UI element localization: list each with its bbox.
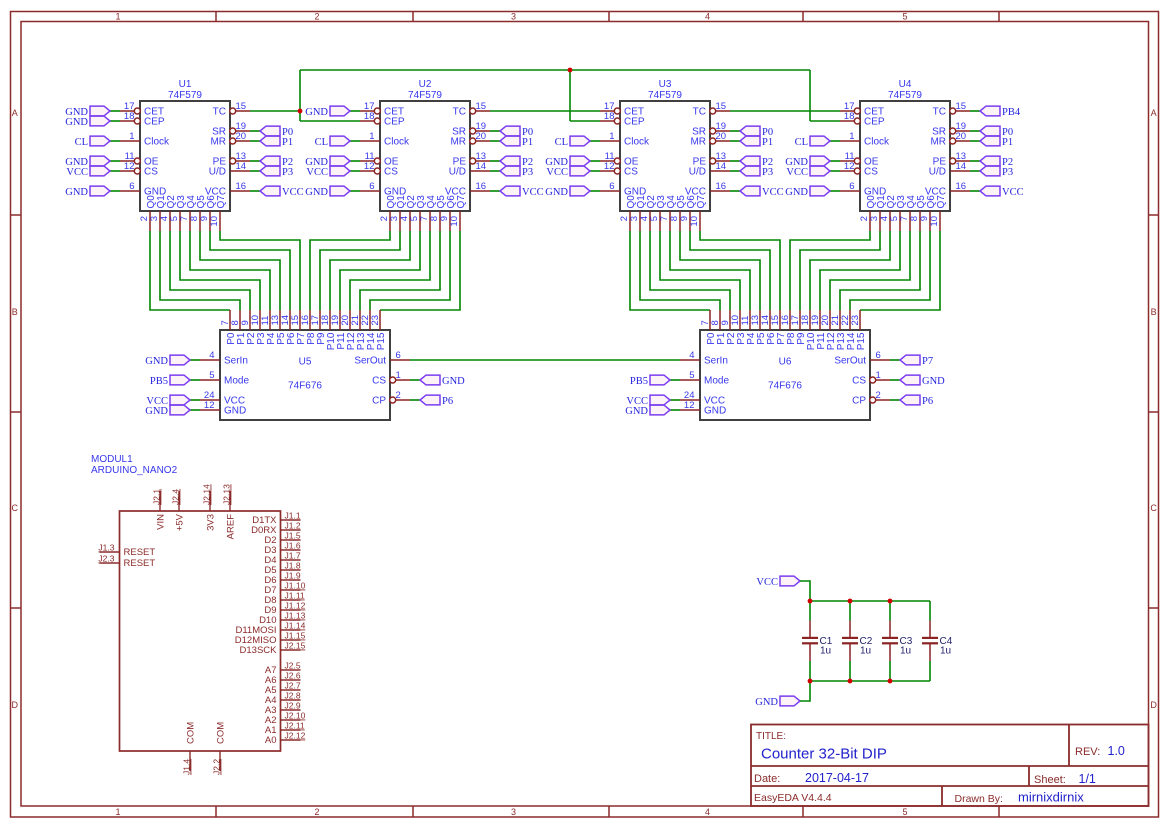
svg-text:74F676: 74F676 bbox=[288, 381, 322, 392]
svg-text:Clock: Clock bbox=[384, 137, 410, 148]
svg-text:18: 18 bbox=[124, 111, 135, 122]
svg-text:J1.3: J1.3 bbox=[98, 543, 114, 553]
svg-text:J2.13: J2.13 bbox=[222, 484, 232, 505]
svg-text:15: 15 bbox=[956, 101, 967, 112]
svg-text:VCC: VCC bbox=[306, 167, 328, 178]
svg-text:P1: P1 bbox=[282, 137, 293, 148]
svg-text:P3: P3 bbox=[762, 167, 773, 178]
svg-text:1: 1 bbox=[876, 370, 881, 381]
svg-text:CEP: CEP bbox=[144, 117, 165, 128]
svg-text:J2.10: J2.10 bbox=[285, 711, 306, 721]
svg-text:SerIn: SerIn bbox=[224, 356, 248, 367]
svg-text:1: 1 bbox=[849, 131, 854, 142]
svg-text:5: 5 bbox=[902, 12, 907, 22]
svg-text:J1.13: J1.13 bbox=[285, 611, 306, 621]
svg-text:Sheet:: Sheet: bbox=[1034, 774, 1066, 786]
svg-text:SerIn: SerIn bbox=[704, 356, 728, 367]
svg-text:B: B bbox=[12, 307, 18, 317]
svg-text:CL: CL bbox=[315, 137, 328, 148]
svg-text:4: 4 bbox=[209, 350, 214, 361]
svg-text:GND: GND bbox=[224, 406, 246, 417]
svg-text:J1.5: J1.5 bbox=[285, 531, 301, 541]
svg-text:15: 15 bbox=[236, 101, 247, 112]
svg-text:20: 20 bbox=[956, 131, 967, 142]
svg-text:18: 18 bbox=[844, 111, 855, 122]
svg-text:10: 10 bbox=[929, 216, 940, 227]
svg-text:PB5: PB5 bbox=[150, 376, 168, 387]
svg-text:14: 14 bbox=[716, 161, 727, 172]
svg-text:Q7: Q7 bbox=[936, 195, 947, 209]
svg-text:J1.6: J1.6 bbox=[285, 541, 301, 551]
svg-text:P1: P1 bbox=[762, 137, 773, 148]
svg-text:5: 5 bbox=[209, 370, 214, 381]
svg-text:GND: GND bbox=[785, 187, 808, 198]
svg-text:J2.15: J2.15 bbox=[285, 641, 306, 651]
svg-text:U/D: U/D bbox=[929, 167, 946, 178]
svg-text:23: 23 bbox=[370, 315, 381, 326]
svg-text:P15: P15 bbox=[856, 332, 867, 350]
svg-text:12: 12 bbox=[844, 161, 855, 172]
svg-text:6: 6 bbox=[609, 181, 614, 192]
svg-text:5: 5 bbox=[689, 370, 694, 381]
svg-text:Clock: Clock bbox=[624, 137, 650, 148]
svg-text:PB4: PB4 bbox=[1002, 107, 1021, 118]
svg-text:1: 1 bbox=[129, 131, 134, 142]
svg-text:Drawn By:: Drawn By: bbox=[955, 793, 1003, 805]
svg-text:3: 3 bbox=[511, 807, 516, 817]
svg-text:C: C bbox=[1150, 503, 1157, 513]
svg-text:VCC: VCC bbox=[282, 187, 304, 198]
svg-text:20: 20 bbox=[236, 131, 247, 142]
svg-text:P6: P6 bbox=[922, 396, 933, 407]
svg-text:J2.12: J2.12 bbox=[285, 731, 306, 741]
svg-text:GND: GND bbox=[305, 187, 328, 198]
svg-text:12: 12 bbox=[204, 400, 215, 411]
svg-text:GND: GND bbox=[755, 697, 778, 708]
svg-text:P1: P1 bbox=[1002, 137, 1013, 148]
svg-text:U6: U6 bbox=[779, 357, 792, 368]
svg-text:U/D: U/D bbox=[689, 167, 706, 178]
svg-text:10: 10 bbox=[689, 216, 700, 227]
svg-text:18: 18 bbox=[604, 111, 615, 122]
svg-text:CS: CS bbox=[384, 167, 398, 178]
svg-text:1u: 1u bbox=[820, 646, 831, 657]
svg-text:GND: GND bbox=[65, 117, 88, 128]
svg-text:J2.11: J2.11 bbox=[285, 721, 305, 731]
svg-text:TC: TC bbox=[933, 107, 946, 118]
svg-text:SerOut: SerOut bbox=[354, 356, 386, 367]
svg-text:A: A bbox=[1151, 108, 1157, 118]
svg-text:6: 6 bbox=[849, 181, 854, 192]
svg-text:1: 1 bbox=[115, 12, 120, 22]
svg-text:REV:: REV: bbox=[1075, 746, 1100, 758]
svg-text:Clock: Clock bbox=[864, 137, 890, 148]
svg-text:3: 3 bbox=[511, 12, 516, 22]
svg-text:P3: P3 bbox=[1002, 167, 1013, 178]
svg-text:J1.9: J1.9 bbox=[285, 571, 301, 581]
svg-text:ARDUINO_NANO2: ARDUINO_NANO2 bbox=[91, 465, 178, 476]
svg-text:Q7: Q7 bbox=[216, 195, 227, 209]
svg-text:20: 20 bbox=[476, 131, 487, 142]
svg-text:6: 6 bbox=[876, 350, 881, 361]
svg-text:CP: CP bbox=[852, 396, 866, 407]
svg-text:20: 20 bbox=[716, 131, 727, 142]
svg-text:B: B bbox=[1151, 307, 1157, 317]
svg-text:RESET: RESET bbox=[124, 558, 156, 569]
svg-text:P1: P1 bbox=[522, 137, 533, 148]
svg-text:U3: U3 bbox=[659, 79, 672, 90]
svg-text:1: 1 bbox=[115, 807, 120, 817]
svg-text:1: 1 bbox=[396, 370, 401, 381]
svg-text:J2.2: J2.2 bbox=[212, 759, 222, 775]
svg-text:COM: COM bbox=[186, 722, 197, 744]
svg-text:Counter 32-Bit DIP: Counter 32-Bit DIP bbox=[761, 746, 887, 763]
svg-text:12: 12 bbox=[684, 400, 695, 411]
svg-text:1u: 1u bbox=[900, 646, 911, 657]
svg-text:18: 18 bbox=[364, 111, 375, 122]
svg-text:J1.11: J1.11 bbox=[285, 591, 305, 601]
svg-text:A0: A0 bbox=[265, 735, 277, 746]
svg-text:Clock: Clock bbox=[144, 137, 170, 148]
svg-text:P3: P3 bbox=[522, 167, 533, 178]
svg-text:J1.12: J1.12 bbox=[285, 601, 306, 611]
svg-text:74F579: 74F579 bbox=[408, 90, 442, 101]
svg-text:10: 10 bbox=[209, 216, 220, 227]
svg-text:mirnixdirnix: mirnixdirnix bbox=[1018, 790, 1084, 805]
svg-text:U/D: U/D bbox=[209, 167, 226, 178]
svg-text:VCC: VCC bbox=[1002, 187, 1024, 198]
svg-text:CL: CL bbox=[555, 137, 568, 148]
svg-text:16: 16 bbox=[476, 181, 487, 192]
svg-text:TC: TC bbox=[453, 107, 466, 118]
svg-text:GND: GND bbox=[145, 356, 168, 367]
svg-text:COM: COM bbox=[216, 722, 227, 744]
svg-text:14: 14 bbox=[956, 161, 967, 172]
svg-text:2: 2 bbox=[396, 390, 401, 401]
svg-text:1.0: 1.0 bbox=[1108, 744, 1125, 758]
svg-text:23: 23 bbox=[850, 315, 861, 326]
svg-text:2017-04-17: 2017-04-17 bbox=[805, 771, 869, 785]
svg-text:PB5: PB5 bbox=[630, 376, 648, 387]
svg-text:MR: MR bbox=[450, 137, 466, 148]
svg-text:J1.2: J1.2 bbox=[285, 521, 301, 531]
svg-text:6: 6 bbox=[129, 181, 134, 192]
svg-text:U2: U2 bbox=[419, 79, 432, 90]
svg-text:D: D bbox=[11, 700, 18, 710]
svg-text:Q7: Q7 bbox=[456, 195, 467, 209]
svg-text:CS: CS bbox=[852, 376, 866, 387]
svg-text:74F579: 74F579 bbox=[648, 90, 682, 101]
svg-text:12: 12 bbox=[124, 161, 135, 172]
svg-text:J2.7: J2.7 bbox=[285, 681, 301, 691]
svg-text:CEP: CEP bbox=[864, 117, 885, 128]
svg-text:J1.1: J1.1 bbox=[285, 511, 301, 521]
svg-text:MODUL1: MODUL1 bbox=[91, 454, 133, 465]
svg-text:CS: CS bbox=[864, 167, 878, 178]
svg-text:J1.15: J1.15 bbox=[285, 631, 306, 641]
svg-text:12: 12 bbox=[364, 161, 375, 172]
svg-text:J2.5: J2.5 bbox=[285, 661, 301, 671]
svg-text:15: 15 bbox=[716, 101, 727, 112]
svg-text:Mode: Mode bbox=[224, 376, 249, 387]
svg-text:C: C bbox=[11, 503, 18, 513]
svg-text:TITLE:: TITLE: bbox=[756, 731, 786, 742]
svg-text:16: 16 bbox=[716, 181, 727, 192]
svg-text:U4: U4 bbox=[899, 79, 912, 90]
svg-text:VCC: VCC bbox=[546, 167, 568, 178]
svg-text:4: 4 bbox=[689, 350, 694, 361]
svg-text:J1.14: J1.14 bbox=[285, 621, 306, 631]
svg-text:CEP: CEP bbox=[624, 117, 645, 128]
svg-text:P6: P6 bbox=[442, 396, 453, 407]
svg-text:P7: P7 bbox=[922, 356, 933, 367]
svg-text:EasyEDA V4.4.4: EasyEDA V4.4.4 bbox=[754, 792, 832, 804]
svg-text:GND: GND bbox=[704, 406, 726, 417]
svg-text:2: 2 bbox=[314, 807, 319, 817]
svg-text:J1.4: J1.4 bbox=[182, 759, 192, 775]
svg-text:CEP: CEP bbox=[384, 117, 405, 128]
svg-text:VCC: VCC bbox=[762, 187, 784, 198]
svg-text:16: 16 bbox=[956, 181, 967, 192]
svg-text:1/1: 1/1 bbox=[1079, 772, 1096, 786]
svg-text:CL: CL bbox=[795, 137, 808, 148]
svg-text:TC: TC bbox=[693, 107, 706, 118]
svg-text:U/D: U/D bbox=[449, 167, 466, 178]
svg-text:CS: CS bbox=[624, 167, 638, 178]
svg-text:P3: P3 bbox=[282, 167, 293, 178]
svg-text:GND: GND bbox=[305, 107, 328, 118]
svg-text:J2.1: J2.1 bbox=[152, 489, 162, 505]
svg-text:CP: CP bbox=[372, 396, 386, 407]
svg-text:CS: CS bbox=[144, 167, 158, 178]
svg-text:TC: TC bbox=[213, 107, 226, 118]
svg-text:MR: MR bbox=[690, 137, 706, 148]
svg-text:6: 6 bbox=[369, 181, 374, 192]
svg-text:GND: GND bbox=[545, 187, 568, 198]
svg-text:VCC: VCC bbox=[522, 187, 544, 198]
svg-text:Q7: Q7 bbox=[696, 195, 707, 209]
svg-text:15: 15 bbox=[476, 101, 487, 112]
svg-text:GND: GND bbox=[922, 376, 945, 387]
svg-text:Mode: Mode bbox=[704, 376, 729, 387]
svg-text:J2.8: J2.8 bbox=[285, 691, 301, 701]
svg-text:Date:: Date: bbox=[754, 773, 780, 785]
svg-text:U1: U1 bbox=[179, 79, 192, 90]
svg-text:1: 1 bbox=[369, 131, 374, 142]
svg-text:3V3: 3V3 bbox=[206, 514, 217, 531]
svg-text:2: 2 bbox=[876, 390, 881, 401]
svg-text:CL: CL bbox=[75, 137, 88, 148]
svg-text:VCC: VCC bbox=[66, 167, 88, 178]
svg-text:SerOut: SerOut bbox=[834, 356, 866, 367]
svg-text:4: 4 bbox=[705, 807, 710, 817]
svg-text:MR: MR bbox=[210, 137, 226, 148]
svg-text:VCC: VCC bbox=[786, 167, 808, 178]
svg-text:AREF: AREF bbox=[226, 514, 237, 540]
svg-text:2: 2 bbox=[314, 12, 319, 22]
svg-text:A: A bbox=[12, 108, 18, 118]
svg-text:6: 6 bbox=[396, 350, 401, 361]
svg-text:4: 4 bbox=[705, 12, 710, 22]
svg-text:14: 14 bbox=[236, 161, 247, 172]
svg-text:74F676: 74F676 bbox=[768, 381, 802, 392]
svg-text:J1.8: J1.8 bbox=[285, 561, 301, 571]
svg-text:J2.6: J2.6 bbox=[285, 671, 301, 681]
svg-text:D: D bbox=[1150, 700, 1157, 710]
svg-text:14: 14 bbox=[476, 161, 487, 172]
svg-text:1u: 1u bbox=[940, 646, 951, 657]
svg-text:74F579: 74F579 bbox=[168, 90, 202, 101]
svg-text:D13SCK: D13SCK bbox=[240, 645, 278, 656]
svg-text:MR: MR bbox=[930, 137, 946, 148]
svg-text:GND: GND bbox=[145, 406, 168, 417]
svg-text:U5: U5 bbox=[299, 357, 312, 368]
svg-text:VIN: VIN bbox=[156, 514, 167, 530]
svg-text:P15: P15 bbox=[376, 332, 387, 350]
svg-text:GND: GND bbox=[625, 406, 648, 417]
svg-text:VCC: VCC bbox=[756, 577, 778, 588]
svg-text:J1.7: J1.7 bbox=[285, 551, 301, 561]
svg-text:16: 16 bbox=[236, 181, 247, 192]
svg-text:10: 10 bbox=[449, 216, 460, 227]
svg-text:GND: GND bbox=[442, 376, 465, 387]
svg-text:5: 5 bbox=[902, 807, 907, 817]
svg-text:12: 12 bbox=[604, 161, 615, 172]
svg-text:GND: GND bbox=[65, 187, 88, 198]
svg-text:RESET: RESET bbox=[124, 547, 156, 558]
svg-text:J2.14: J2.14 bbox=[202, 484, 212, 505]
svg-text:J1.10: J1.10 bbox=[285, 581, 306, 591]
svg-text:1u: 1u bbox=[860, 646, 871, 657]
svg-text:74F579: 74F579 bbox=[888, 90, 922, 101]
svg-text:CS: CS bbox=[372, 376, 386, 387]
svg-text:J2.3: J2.3 bbox=[98, 554, 114, 564]
svg-text:J2.9: J2.9 bbox=[285, 701, 301, 711]
svg-text:+5V: +5V bbox=[175, 513, 186, 531]
svg-text:1: 1 bbox=[609, 131, 614, 142]
svg-text:J2.4: J2.4 bbox=[171, 489, 181, 505]
